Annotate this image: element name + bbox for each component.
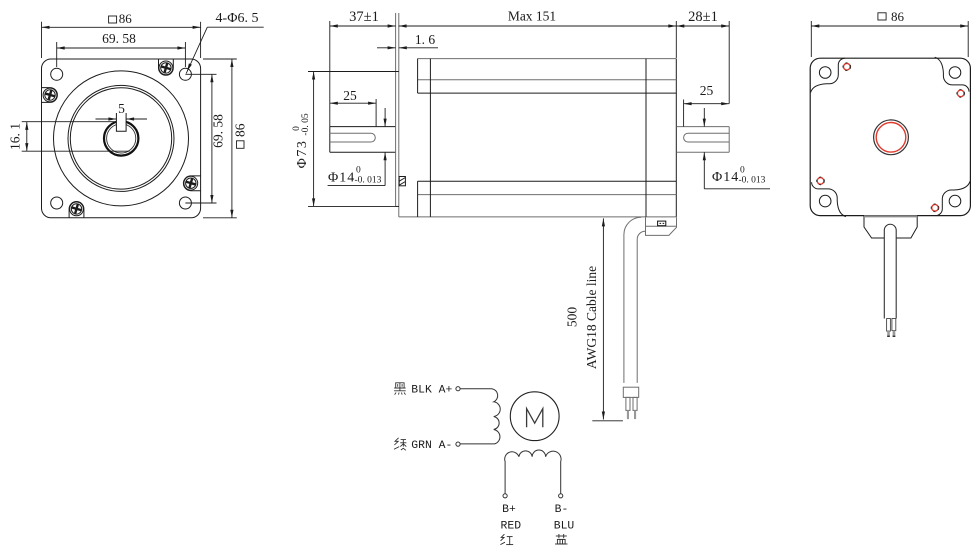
motor M circle <box>510 392 559 441</box>
svg-text:-0. 013: -0. 013 <box>739 176 766 186</box>
svg-text:Max 151: Max 151 <box>508 9 556 24</box>
front boss flange dia73 <box>396 13 399 206</box>
mounting hole bottom-right <box>179 197 191 209</box>
screw right (notch+head) <box>183 176 200 191</box>
screw left (notch+head) <box>42 88 58 103</box>
svg-text:69. 58: 69. 58 <box>211 114 226 148</box>
through hole bottom-right <box>949 195 961 207</box>
coil B (phase B winding) <box>505 450 561 494</box>
tie screw top-left (red) <box>843 63 851 71</box>
dimension 69.58 right vertical <box>185 74 225 203</box>
front shaft keyway flat <box>330 133 376 142</box>
keyway slot white mask <box>116 118 126 132</box>
svg-text:16. 1: 16. 1 <box>8 123 23 150</box>
rear end cap edge <box>645 59 647 217</box>
dimension dia73 <box>292 72 399 207</box>
svg-text:BLK A+: BLK A+ <box>411 384 452 396</box>
shaft inner circle <box>107 124 136 153</box>
mounting hole top-left <box>51 68 63 80</box>
cable end connector <box>623 387 638 397</box>
coil A (phase A winding) <box>460 389 500 444</box>
svg-text:AWG18 Cable line: AWG18 Cable line <box>584 266 599 369</box>
rear center bearing boss <box>874 120 909 155</box>
dimension dia14 rear <box>703 108 770 189</box>
dimension 4-dia6.5 leader <box>186 11 264 74</box>
mounting hole top-right <box>179 68 191 80</box>
connector pin 2 <box>633 397 637 419</box>
body corner silhouette lines <box>418 80 677 195</box>
dimension 69.58 top <box>57 31 186 67</box>
dimension 16.1 left <box>8 122 130 152</box>
raised ring inner <box>70 88 171 189</box>
rear body square <box>810 58 970 215</box>
dimension 28+-1 <box>676 9 729 104</box>
corner clamp cut bottom-left <box>812 182 846 216</box>
terminal B+ <box>503 494 507 498</box>
dimension 5 keyway <box>96 101 148 121</box>
motor body outline <box>399 59 677 217</box>
hanzi lv (green) <box>394 438 406 451</box>
connector pin 1 <box>626 397 630 419</box>
svg-text:-0. 013: -0. 013 <box>355 176 382 186</box>
rear cable tube <box>884 224 896 318</box>
rear shaft keyway flat <box>684 133 730 142</box>
rear center red ring <box>876 123 906 153</box>
svg-text:500: 500 <box>565 307 580 328</box>
terminal B- <box>559 494 563 498</box>
gland seam <box>864 215 917 217</box>
svg-text:0: 0 <box>740 166 745 176</box>
svg-text:RED: RED <box>501 521 522 533</box>
svg-text:37±1: 37±1 <box>349 9 379 25</box>
dimension 1.6 <box>377 32 438 49</box>
dimension 25 front <box>330 88 376 127</box>
svg-text:Φ14: Φ14 <box>712 170 739 185</box>
screw bottom (notch+head) <box>69 202 84 218</box>
svg-text:1. 6: 1. 6 <box>415 32 436 47</box>
dimension dia14 front <box>328 108 387 186</box>
rear wire 2 <box>892 319 896 338</box>
terminal A- <box>456 442 460 446</box>
corner clamp cut bottom-right <box>936 181 970 215</box>
svg-text:GRN A-: GRN A- <box>411 440 452 452</box>
svg-text:BLU: BLU <box>554 521 575 533</box>
svg-text:86: 86 <box>233 123 248 137</box>
tie screw right-top (red) <box>957 90 965 98</box>
through hole bottom-left <box>819 195 831 207</box>
terminal A+ <box>456 387 460 391</box>
screw top (notch+head) <box>159 59 174 75</box>
cable gland <box>864 216 917 238</box>
front plate <box>42 59 201 218</box>
pilot boss circle <box>54 71 189 206</box>
svg-text:-0. 05: -0. 05 <box>301 113 311 135</box>
svg-text:4-Φ6. 5: 4-Φ6. 5 <box>216 11 259 26</box>
svg-text:25: 25 <box>700 83 714 98</box>
svg-text:5: 5 <box>118 101 125 116</box>
svg-text:86: 86 <box>119 11 133 26</box>
front end cap edge <box>418 59 431 217</box>
svg-text:Φ73: Φ73 <box>295 140 310 169</box>
corner clamp cut top-left <box>811 58 845 92</box>
dimension square86 top <box>42 11 201 58</box>
tie screw left-bottom (red) <box>817 177 825 185</box>
nameplate hatch mark <box>399 177 405 186</box>
dimension 25 rear <box>684 83 730 127</box>
dimension 37+-1 <box>330 9 396 127</box>
dimension Max 151 <box>399 9 677 59</box>
mounting hole bottom-left <box>51 197 63 209</box>
svg-text:B-: B- <box>555 504 569 516</box>
rear shaft <box>676 127 729 153</box>
hanzi hei (black) <box>394 383 406 395</box>
svg-text:69. 58: 69. 58 <box>102 31 136 46</box>
tie screw bottom-right (red) <box>931 204 939 212</box>
svg-text:25: 25 <box>343 88 357 103</box>
shaft outer circle <box>104 121 138 155</box>
hanzi lan (blue) <box>555 534 568 544</box>
dimension 500 cable <box>565 218 623 420</box>
corner clamp cut top-right <box>935 57 969 91</box>
through hole top-right <box>949 67 961 79</box>
front shaft <box>330 127 396 153</box>
rear wire 1 <box>887 319 891 338</box>
motor M letter <box>527 409 543 428</box>
cable bend and tube <box>624 217 646 383</box>
raised ring outer <box>68 85 174 191</box>
dimension square86 right vertical <box>203 59 248 218</box>
svg-text:28±1: 28±1 <box>688 9 718 25</box>
keyway slot outline <box>116 113 126 131</box>
svg-text:86: 86 <box>891 9 905 24</box>
dimension square86 rear <box>811 9 968 57</box>
terminal box under rear cap <box>646 217 677 235</box>
through hole top-left <box>819 67 831 79</box>
svg-text:0: 0 <box>356 166 361 176</box>
svg-text:B+: B+ <box>502 504 516 516</box>
hanzi hong (red) <box>500 534 513 544</box>
svg-text:Φ14: Φ14 <box>328 171 355 186</box>
